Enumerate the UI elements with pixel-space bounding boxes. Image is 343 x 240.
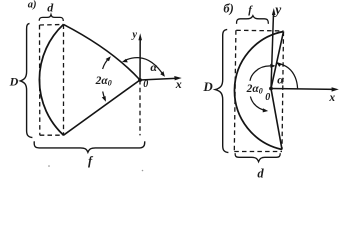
alpha arc b: [277, 63, 298, 88]
x axis b: [271, 88, 335, 91]
svg-text:D: D: [9, 75, 19, 89]
dashed aperture line (box right edge): [63, 25, 65, 136]
svg-text:x: x: [175, 77, 182, 91]
D brace: [20, 23, 32, 137]
svg-text:d: d: [47, 0, 54, 14]
svg-text:f: f: [88, 154, 94, 168]
svg-text:α: α: [277, 73, 284, 87]
svg-text:f: f: [248, 4, 253, 16]
lower ray a: [64, 80, 141, 135]
2alpha0 arc upper segment b: [250, 66, 274, 81]
y axis a: [139, 38, 141, 80]
alpha arc a: [124, 58, 163, 75]
y axis b: [271, 13, 274, 89]
2alpha0 arc lower segment b: [250, 97, 266, 111]
D brace b: [215, 29, 228, 152]
parabola arc b: [234, 32, 283, 150]
parabola arc a: [39, 24, 63, 135]
svg-text:y: y: [130, 30, 137, 41]
origin dot b: [269, 87, 273, 91]
svg-text:D: D: [202, 79, 213, 94]
origin dot a: [138, 78, 142, 82]
svg-text:0: 0: [265, 92, 270, 103]
dashed box left edge: [39, 25, 41, 135]
dashed box bottom edge b: [234, 151, 282, 153]
upper ray b: [271, 32, 284, 89]
f brace a: [34, 141, 145, 152]
d over-brace: [39, 15, 63, 21]
dashed aperture line b: [282, 32, 284, 150]
2alpha0 arc lower segment a: [103, 92, 106, 100]
svg-text:x: x: [328, 92, 335, 104]
d under-brace b: [235, 153, 280, 162]
noise speck 1: [48, 165, 50, 167]
svg-text:а): а): [28, 0, 37, 11]
noise speck 2: [142, 170, 144, 172]
2alpha0 arc upper segment a: [103, 58, 110, 69]
dashed box left edge b: [234, 30, 236, 151]
svg-text:2α0: 2α0: [95, 75, 112, 88]
dashed box top edge b: [236, 29, 283, 32]
x axis a: [140, 78, 178, 80]
dashed vertical below origin a: [139, 80, 141, 135]
svg-text:0: 0: [143, 79, 148, 90]
dashed box bottom edge: [40, 134, 64, 136]
lower ray b: [271, 89, 282, 150]
f over-brace b: [237, 16, 269, 24]
svg-text:б): б): [223, 2, 233, 16]
dashed box top edge: [40, 24, 64, 27]
svg-text:2α0: 2α0: [246, 83, 263, 96]
svg-text:y: y: [273, 2, 282, 17]
svg-text:d: d: [257, 167, 264, 181]
upper ray a: [64, 24, 141, 80]
